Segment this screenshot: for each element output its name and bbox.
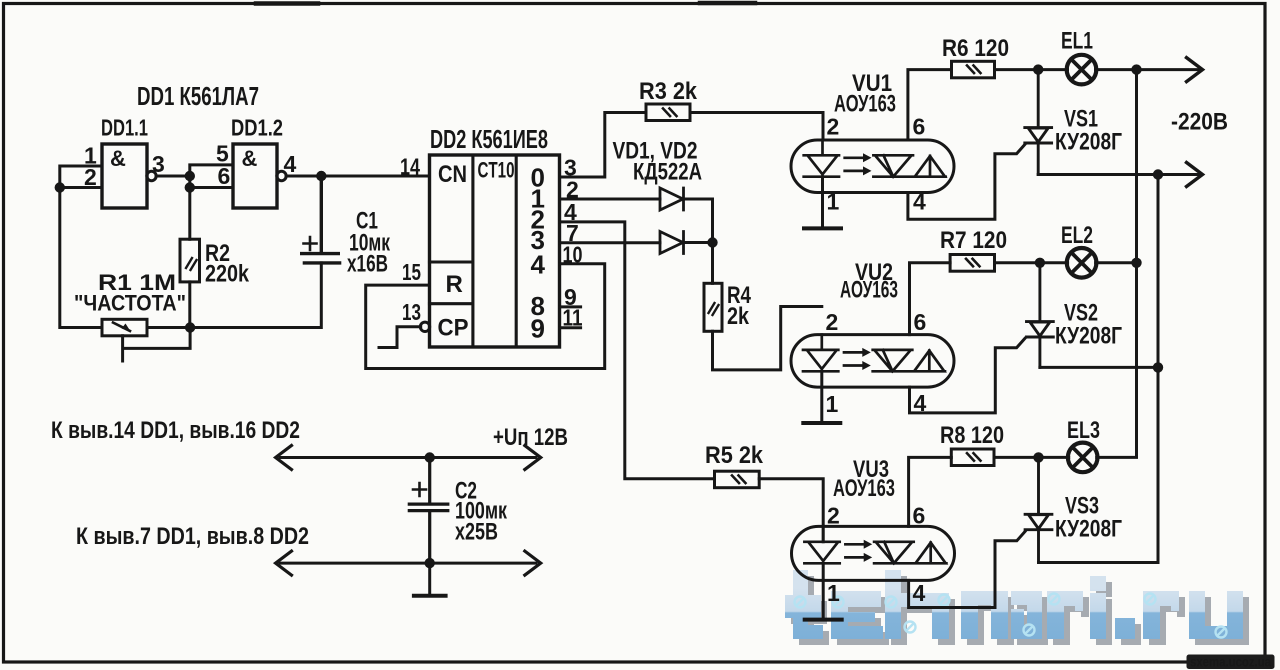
wire: DD2 pin7 output 3 to VD2 [560, 241, 661, 244]
svg-text:"ЧАСТОТА": "ЧАСТОТА" [74, 291, 186, 316]
svg-text:sxema.ucoz.ua: sxema.ucoz.ua [1190, 655, 1271, 670]
wire: R6 to EL1 [995, 68, 1068, 71]
wire: VS1 out to mains arrow 2 [1038, 173, 1199, 176]
wire: DD2 pin4 output 2 down to R5 [560, 222, 715, 479]
svg-text:КУ208Г: КУ208Г [1055, 129, 1122, 156]
VU1 output triac [873, 155, 945, 176]
node: +Up rail / C2 [425, 452, 435, 462]
DD2 pin13 CP inversion circle [420, 322, 429, 331]
lamp EL1 [1067, 55, 1097, 85]
svg-text:15: 15 [402, 259, 421, 285]
capacitor C2 [409, 458, 448, 564]
svg-text:4: 4 [531, 249, 546, 279]
svg-text:DD1.1: DD1.1 [101, 115, 148, 141]
wire: DD2 pin15 R to pin10 loop [366, 264, 605, 369]
svg-text:АОУ163: АОУ163 [840, 277, 898, 304]
wire: EL2 to bus [1096, 261, 1137, 264]
optocoupler VU1 body [791, 140, 954, 193]
wire: VD1 cathode to node [684, 199, 713, 243]
svg-text:АОУ163: АОУ163 [834, 91, 896, 118]
watermark dot [1115, 618, 1135, 639]
wire: VU3 pin6 up to R8 [909, 457, 952, 526]
VU1 light arrows [845, 158, 864, 171]
svg-text:4: 4 [284, 151, 297, 177]
resistor R5 [715, 471, 760, 488]
node: R7 / VS2 anode [1035, 258, 1045, 268]
capacitor C1 [302, 176, 340, 263]
wire: DD1.1 pin1 feedback from R1 left [60, 166, 102, 328]
svg-text:2: 2 [827, 503, 840, 529]
mains arrow 1 [1187, 58, 1203, 82]
node: R1-R2 rail [185, 322, 195, 332]
svg-text:6: 6 [218, 163, 231, 189]
wire: DD2 pin11 stub [560, 326, 581, 329]
node: DD1.1 pins1-2 tie [55, 182, 65, 192]
svg-text:КД522А: КД522А [633, 159, 702, 186]
node: VD1-VD2 cathodes / R4 [707, 237, 717, 247]
ground under VU2 [803, 421, 840, 425]
node: R6 / VS1 anode [1033, 64, 1043, 74]
wire: VU3 pin4 to VS3 gate [909, 532, 1025, 608]
svg-text:2k: 2k [727, 303, 750, 330]
watermark letter n [961, 591, 978, 639]
VU1 LED [804, 140, 839, 177]
wire: bottom rail R1 to C1 [147, 263, 321, 328]
resistor R2 [180, 239, 200, 282]
watermark letter u [1189, 591, 1205, 633]
watermark letter e [831, 591, 881, 607]
svg-text:2: 2 [84, 164, 97, 190]
wire: VS2 out to return bus [1040, 366, 1158, 369]
resistor R7 [950, 255, 994, 272]
top border scan marks [256, 1, 755, 6]
svg-text:4: 4 [913, 189, 926, 215]
VU2 light arrows [844, 352, 863, 365]
VU3 light arrows [845, 544, 864, 557]
svg-text:CN: CN [438, 161, 467, 188]
svg-text:EL3: EL3 [1067, 417, 1100, 444]
bus: triac return line [1157, 175, 1160, 563]
triac VS1 [1025, 70, 1052, 175]
VU3 output triac [874, 542, 946, 564]
svg-text:&: & [242, 146, 258, 171]
wire: R8 to EL3 [994, 456, 1069, 459]
svg-text:АОУ163: АОУ163 [833, 475, 895, 502]
VU1 pin1 to ground [821, 177, 824, 229]
svg-text:CT10: CT10 [478, 158, 515, 183]
svg-text:6: 6 [913, 503, 926, 529]
svg-text:14: 14 [400, 154, 420, 180]
optocoupler VU3 body [792, 526, 955, 580]
svg-text:КУ208Г: КУ208Г [1055, 323, 1122, 350]
wire: VU2 pin4 to VS2 gate [910, 339, 1025, 413]
svg-text:13: 13 [402, 299, 421, 325]
node: EL1 / lamps bus [1131, 64, 1141, 74]
watermark letter i [1090, 576, 1106, 591]
svg-text:DD2 К561ИЕ8: DD2 К561ИЕ8 [430, 124, 548, 154]
watermark shadow [791, 576, 1249, 645]
svg-text:К выв.7 DD1, выв.8 DD2: К выв.7 DD1, выв.8 DD2 [76, 523, 309, 550]
VU2 LED [803, 335, 838, 372]
ground under VU1 [804, 226, 841, 230]
svg-text:R: R [446, 271, 463, 298]
wire: R5 to VU3 pin2 [759, 479, 823, 542]
wire: DD2 pin2 output 1 to VD1 [560, 198, 661, 201]
power rail 0V with arrows [280, 562, 536, 565]
node: VS1 out / return bus [1153, 169, 1163, 179]
resistor R4 [711, 243, 714, 284]
IC DD2 box [430, 155, 560, 347]
gate DD1.1 [102, 144, 147, 208]
svg-text:R7 120: R7 120 [940, 227, 1007, 254]
wire: R3 to VU1 pin2 [690, 113, 823, 141]
site stamp sxema.ucoz.ua [1187, 655, 1275, 670]
wire: R1 wiper tap [123, 328, 191, 362]
svg-text:&: & [110, 146, 126, 171]
resistor R8 [951, 449, 994, 466]
wire: R4 bottom to VU2 pin2 [713, 307, 822, 370]
svg-text:R6 120: R6 120 [942, 35, 1009, 62]
svg-text:6: 6 [913, 114, 926, 140]
watermark letter h [885, 570, 901, 639]
resistor R3 [646, 104, 690, 121]
wire: VU1 pin6 up to R6 [908, 70, 952, 140]
svg-text:CP: CP [438, 315, 469, 342]
VU3 pin1 to ground [822, 563, 825, 619]
node: DD1.2 out / C1 top [316, 171, 326, 181]
wire: EL1 to mains arrow 1 [1096, 68, 1200, 71]
svg-text:DD1.2: DD1.2 [231, 115, 283, 141]
svg-text:R3 2k: R3 2k [639, 78, 698, 105]
node: R8 / VS3 anode [1033, 452, 1043, 462]
node: VS2 out / return bus [1153, 362, 1163, 372]
VU3 LED [804, 526, 839, 563]
node: pin6 / R2 [185, 182, 195, 192]
wire: CP step stub [379, 327, 421, 348]
node: EL2 / lamps bus [1131, 258, 1141, 268]
VU2 pin1 to ground [820, 371, 823, 423]
svg-text:EL2: EL2 [1061, 222, 1093, 249]
svg-text:x25В: x25В [455, 519, 498, 546]
gate DD1.1 output inversion circle [147, 171, 156, 180]
svg-text:2: 2 [826, 309, 839, 335]
node: 0V rail / C2 [425, 558, 435, 568]
lamp EL2 [1067, 248, 1097, 278]
svg-text:1: 1 [827, 580, 840, 606]
svg-text:9: 9 [531, 313, 545, 343]
ground under C2 [414, 594, 446, 598]
wire: DD2 pin3 output 0 up to R3 [560, 113, 647, 178]
diode VD2 [660, 232, 684, 254]
svg-text:R8 120: R8 120 [940, 422, 1004, 449]
svg-text:6: 6 [914, 309, 927, 335]
svg-text:1: 1 [827, 189, 840, 215]
wire: DD1.1 pin2 stub [60, 186, 102, 189]
wire: DD2 pin9 stub [560, 305, 581, 308]
lamp EL3 [1068, 443, 1098, 473]
power rail +Up with arrows [280, 456, 536, 459]
wire: VU2 pin6 up to R7 [910, 263, 951, 335]
svg-text:2: 2 [827, 114, 840, 140]
wire: R2 bottom to rail [188, 282, 191, 328]
mains arrow 2 [1187, 163, 1203, 187]
svg-text:10: 10 [563, 242, 583, 268]
svg-text:4: 4 [913, 580, 926, 606]
svg-text:+Uп 12В: +Uп 12В [493, 424, 568, 451]
resistor R1 (variable) [102, 319, 147, 336]
watermark copyright circles [795, 594, 1227, 638]
svg-text:11: 11 [563, 305, 583, 331]
ground under VU3 [805, 618, 842, 622]
optocoupler VU2 body [791, 335, 954, 388]
svg-text:-220В: -220В [1171, 109, 1228, 136]
svg-text:220k: 220k [205, 261, 250, 288]
gate DD1.2 [233, 144, 277, 208]
watermark letter t [785, 570, 1243, 639]
svg-text:EL1: EL1 [1061, 28, 1093, 55]
VU2 output triac [873, 350, 945, 371]
bus: lamps line EL1-EL3 [1097, 70, 1137, 458]
watermark letter r2 [1143, 591, 1160, 639]
svg-text:КУ208Г: КУ208Г [1055, 516, 1122, 543]
resistor R6 [952, 61, 995, 78]
svg-text:R5 2k: R5 2k [705, 442, 764, 469]
wire: VU1 pin4 to VS1 gate [908, 145, 1025, 220]
wire: node column to DD1.2 inputs [190, 165, 233, 239]
node: gate output / pin5 [185, 171, 195, 181]
wire: VD2 cathode to node [684, 241, 713, 244]
svg-text:3: 3 [152, 151, 165, 177]
svg-text:1: 1 [826, 391, 839, 417]
wire: R7 to EL2 [995, 261, 1068, 264]
triac VS3 [1025, 457, 1052, 562]
watermark letter a [1011, 591, 1042, 605]
wire: DD1.2 pin4 output to DD2 CN pin14 [286, 175, 430, 178]
svg-text:DD1 К561ЛА7: DD1 К561ЛА7 [137, 81, 259, 111]
svg-text:К выв.14 DD1, выв.16 DD2: К выв.14 DD1, выв.16 DD2 [51, 417, 300, 444]
svg-text:x16В: x16В [347, 251, 388, 278]
wire: DD1.1 pin3 output to node [156, 175, 190, 178]
triac VS2 [1027, 263, 1054, 368]
svg-text:4: 4 [914, 390, 927, 416]
gate DD1.2 output inversion circle [277, 171, 286, 180]
WATERMARK [785, 570, 1249, 645]
wire: C2 to ground [428, 563, 431, 595]
diode VD1 [660, 188, 684, 210]
watermark letter r [1047, 591, 1064, 639]
wire: VS3 out to return bus [1039, 561, 1159, 564]
